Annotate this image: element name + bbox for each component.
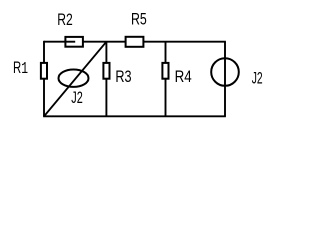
svg-text:R2: R2 xyxy=(57,11,72,29)
svg-text:J2: J2 xyxy=(252,70,263,88)
svg-text:R5: R5 xyxy=(131,11,147,29)
svg-text:R1: R1 xyxy=(13,59,28,78)
svg-text:R4: R4 xyxy=(175,68,192,86)
svg-text:R3: R3 xyxy=(115,68,131,86)
svg-text:J2: J2 xyxy=(71,89,83,107)
